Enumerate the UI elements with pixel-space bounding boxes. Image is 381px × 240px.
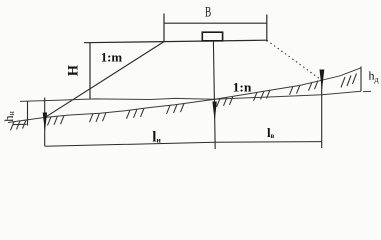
ground hatch group G4 [127, 108, 145, 118]
axis marker rectangle [202, 32, 222, 41]
level line through axis ground point [20, 91, 361, 101]
vertical H line [89, 43, 91, 100]
roadbed top line [84, 40, 267, 43]
svg-text:B: B [205, 5, 211, 21]
ground hatch group G5 [167, 104, 185, 114]
svg-text:1:m: 1:m [101, 50, 123, 65]
svg-text:H: H [65, 64, 81, 76]
right hd dimension vertical [360, 67, 362, 92]
uphill stake arrow (right) [320, 70, 325, 92]
left h dimension vertical [27, 101, 29, 126]
ground hatch group G1 [48, 116, 65, 126]
dashed slope line right [267, 40, 322, 80]
axis stake arrow [212, 102, 216, 122]
level line trailing dash [363, 90, 371, 92]
slope line 1:m [45, 42, 164, 118]
toe stake vertical (left) [44, 98, 46, 147]
ground hatch group G3 [90, 113, 107, 123]
toe stake arrow (left) [43, 113, 47, 133]
extension line right of B [266, 15, 268, 42]
ground hatch group G7 [254, 90, 271, 101]
uphill stake vertical (right) [321, 74, 323, 148]
svg-text:1:n: 1:n [233, 80, 253, 95]
ground hatch group G6 [217, 96, 234, 107]
dimension line B [164, 22, 267, 24]
ground line [8, 68, 361, 123]
centerline axis vertical [213, 41, 215, 149]
extension line left of B [163, 14, 165, 42]
ground hatch group G0 [11, 120, 27, 130]
paper background [0, 0, 381, 154]
ground hatch group G10 [341, 74, 357, 88]
bottom dimension line [45, 142, 322, 147]
left h dimension bottom tick [13, 123, 27, 125]
ground hatch group G9 [309, 81, 319, 91]
ground hatch group G8 [290, 85, 301, 95]
